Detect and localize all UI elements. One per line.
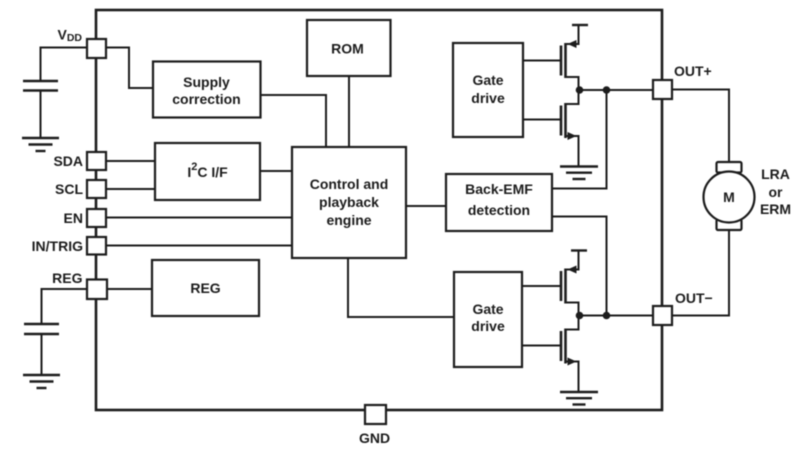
pin VDD <box>87 39 106 58</box>
svg-text:REG: REG <box>190 280 220 296</box>
svg-text:M: M <box>723 189 735 205</box>
block Supply correction <box>153 62 261 118</box>
wire VDD pin to Supply correction <box>106 48 153 89</box>
wire lower Gate drive to Q3 gate <box>522 285 560 287</box>
wire OUT+ node to OUT+ pin <box>579 89 654 91</box>
wire Supply correction to Control engine <box>260 95 326 147</box>
block Back-EMF detection <box>446 174 552 231</box>
block Gate drive (lower) <box>454 272 522 367</box>
svg-text:VDD: VDD <box>57 27 82 45</box>
pin OUT- <box>653 306 672 325</box>
wire REG pin to REG block <box>106 288 152 290</box>
svg-text:SCL: SCL <box>55 181 83 197</box>
transistor Q4 (low-side FET, lower half-bridge) <box>561 316 579 392</box>
pin GND <box>365 405 386 424</box>
svg-text:OUT−: OUT− <box>675 290 713 306</box>
wire Back-EMF detection to OUT+ node <box>552 90 607 189</box>
block ROM <box>307 20 391 76</box>
wire C2 to ground <box>41 334 43 375</box>
wire OUT- node to OUT- pin <box>579 315 654 317</box>
ground symbol (C2) <box>23 375 60 388</box>
wire Back-EMF detection to OUT- node <box>552 217 607 316</box>
junction dot OUT- sense tap <box>603 312 611 320</box>
capacitor C1 <box>23 81 58 91</box>
chip outline U1 (device boundary) <box>96 10 662 410</box>
pin EN <box>87 209 106 227</box>
wire motor terminal to OUT- pin <box>672 229 729 316</box>
block I2C I/F <box>155 143 260 200</box>
wire C1 to ground <box>40 91 42 139</box>
svg-text:GND: GND <box>359 430 390 446</box>
pin OUT+ <box>653 80 672 99</box>
junction dot OUT+ node A <box>576 86 584 94</box>
wire ROM to Control engine <box>348 77 350 147</box>
wire VDD pin to bypass capacitor C1 <box>41 48 88 82</box>
capacitor C2 <box>24 324 59 334</box>
wire upper Gate drive to Q2 gate <box>523 119 561 121</box>
svg-text:Gatedrive: Gatedrive <box>471 301 505 334</box>
svg-text:IN/TRIG: IN/TRIG <box>32 238 83 254</box>
wire IN/TRIG pin to Control engine <box>106 245 292 247</box>
wire Control engine to Back-EMF detection <box>406 205 446 207</box>
svg-text:REG: REG <box>52 270 82 286</box>
wire upper Gate drive to Q1 gate <box>523 60 561 62</box>
wire SDA pin to I2C block <box>106 160 155 162</box>
svg-text:EN: EN <box>64 210 83 226</box>
wire REG pin to capacitor C2 <box>42 289 88 324</box>
pin SDA <box>87 152 106 170</box>
svg-text:ROM: ROM <box>331 41 364 57</box>
transistor Q3 (high-side FET, lower half-bridge) <box>561 251 587 316</box>
wire lower Gate drive to Q4 gate <box>522 345 560 347</box>
block Control and playback engine <box>292 147 406 258</box>
ground symbol (lower half-bridge) <box>560 392 598 405</box>
pin SCL <box>87 180 106 198</box>
wire Control engine to lower Gate drive <box>348 258 454 317</box>
transistor Q2 (low-side FET, upper half-bridge) <box>561 90 579 166</box>
ground symbol (upper half-bridge) <box>560 167 598 180</box>
block Gate drive (upper) <box>453 43 523 137</box>
motor M1 (LRA or ERM actuator) <box>704 162 755 230</box>
pin IN/TRIG <box>87 237 106 255</box>
transistor Q1 (high-side FET, upper half-bridge) <box>561 25 588 90</box>
svg-text:LRAorERM: LRAorERM <box>760 166 791 217</box>
pin REG <box>87 280 107 300</box>
wire I2C block to Control engine <box>260 170 292 172</box>
ground symbol (C1) <box>22 138 59 151</box>
svg-text:SDA: SDA <box>53 153 83 169</box>
wire EN pin to Control engine <box>106 217 292 219</box>
junction dot OUT+ sense tap <box>603 86 611 94</box>
junction dot OUT- node B <box>576 312 584 320</box>
svg-text:OUT+: OUT+ <box>674 63 712 79</box>
wire SCL pin to I2C block <box>106 188 155 190</box>
block REG <box>152 260 259 316</box>
wire OUT+ pin to motor terminal <box>672 90 729 164</box>
